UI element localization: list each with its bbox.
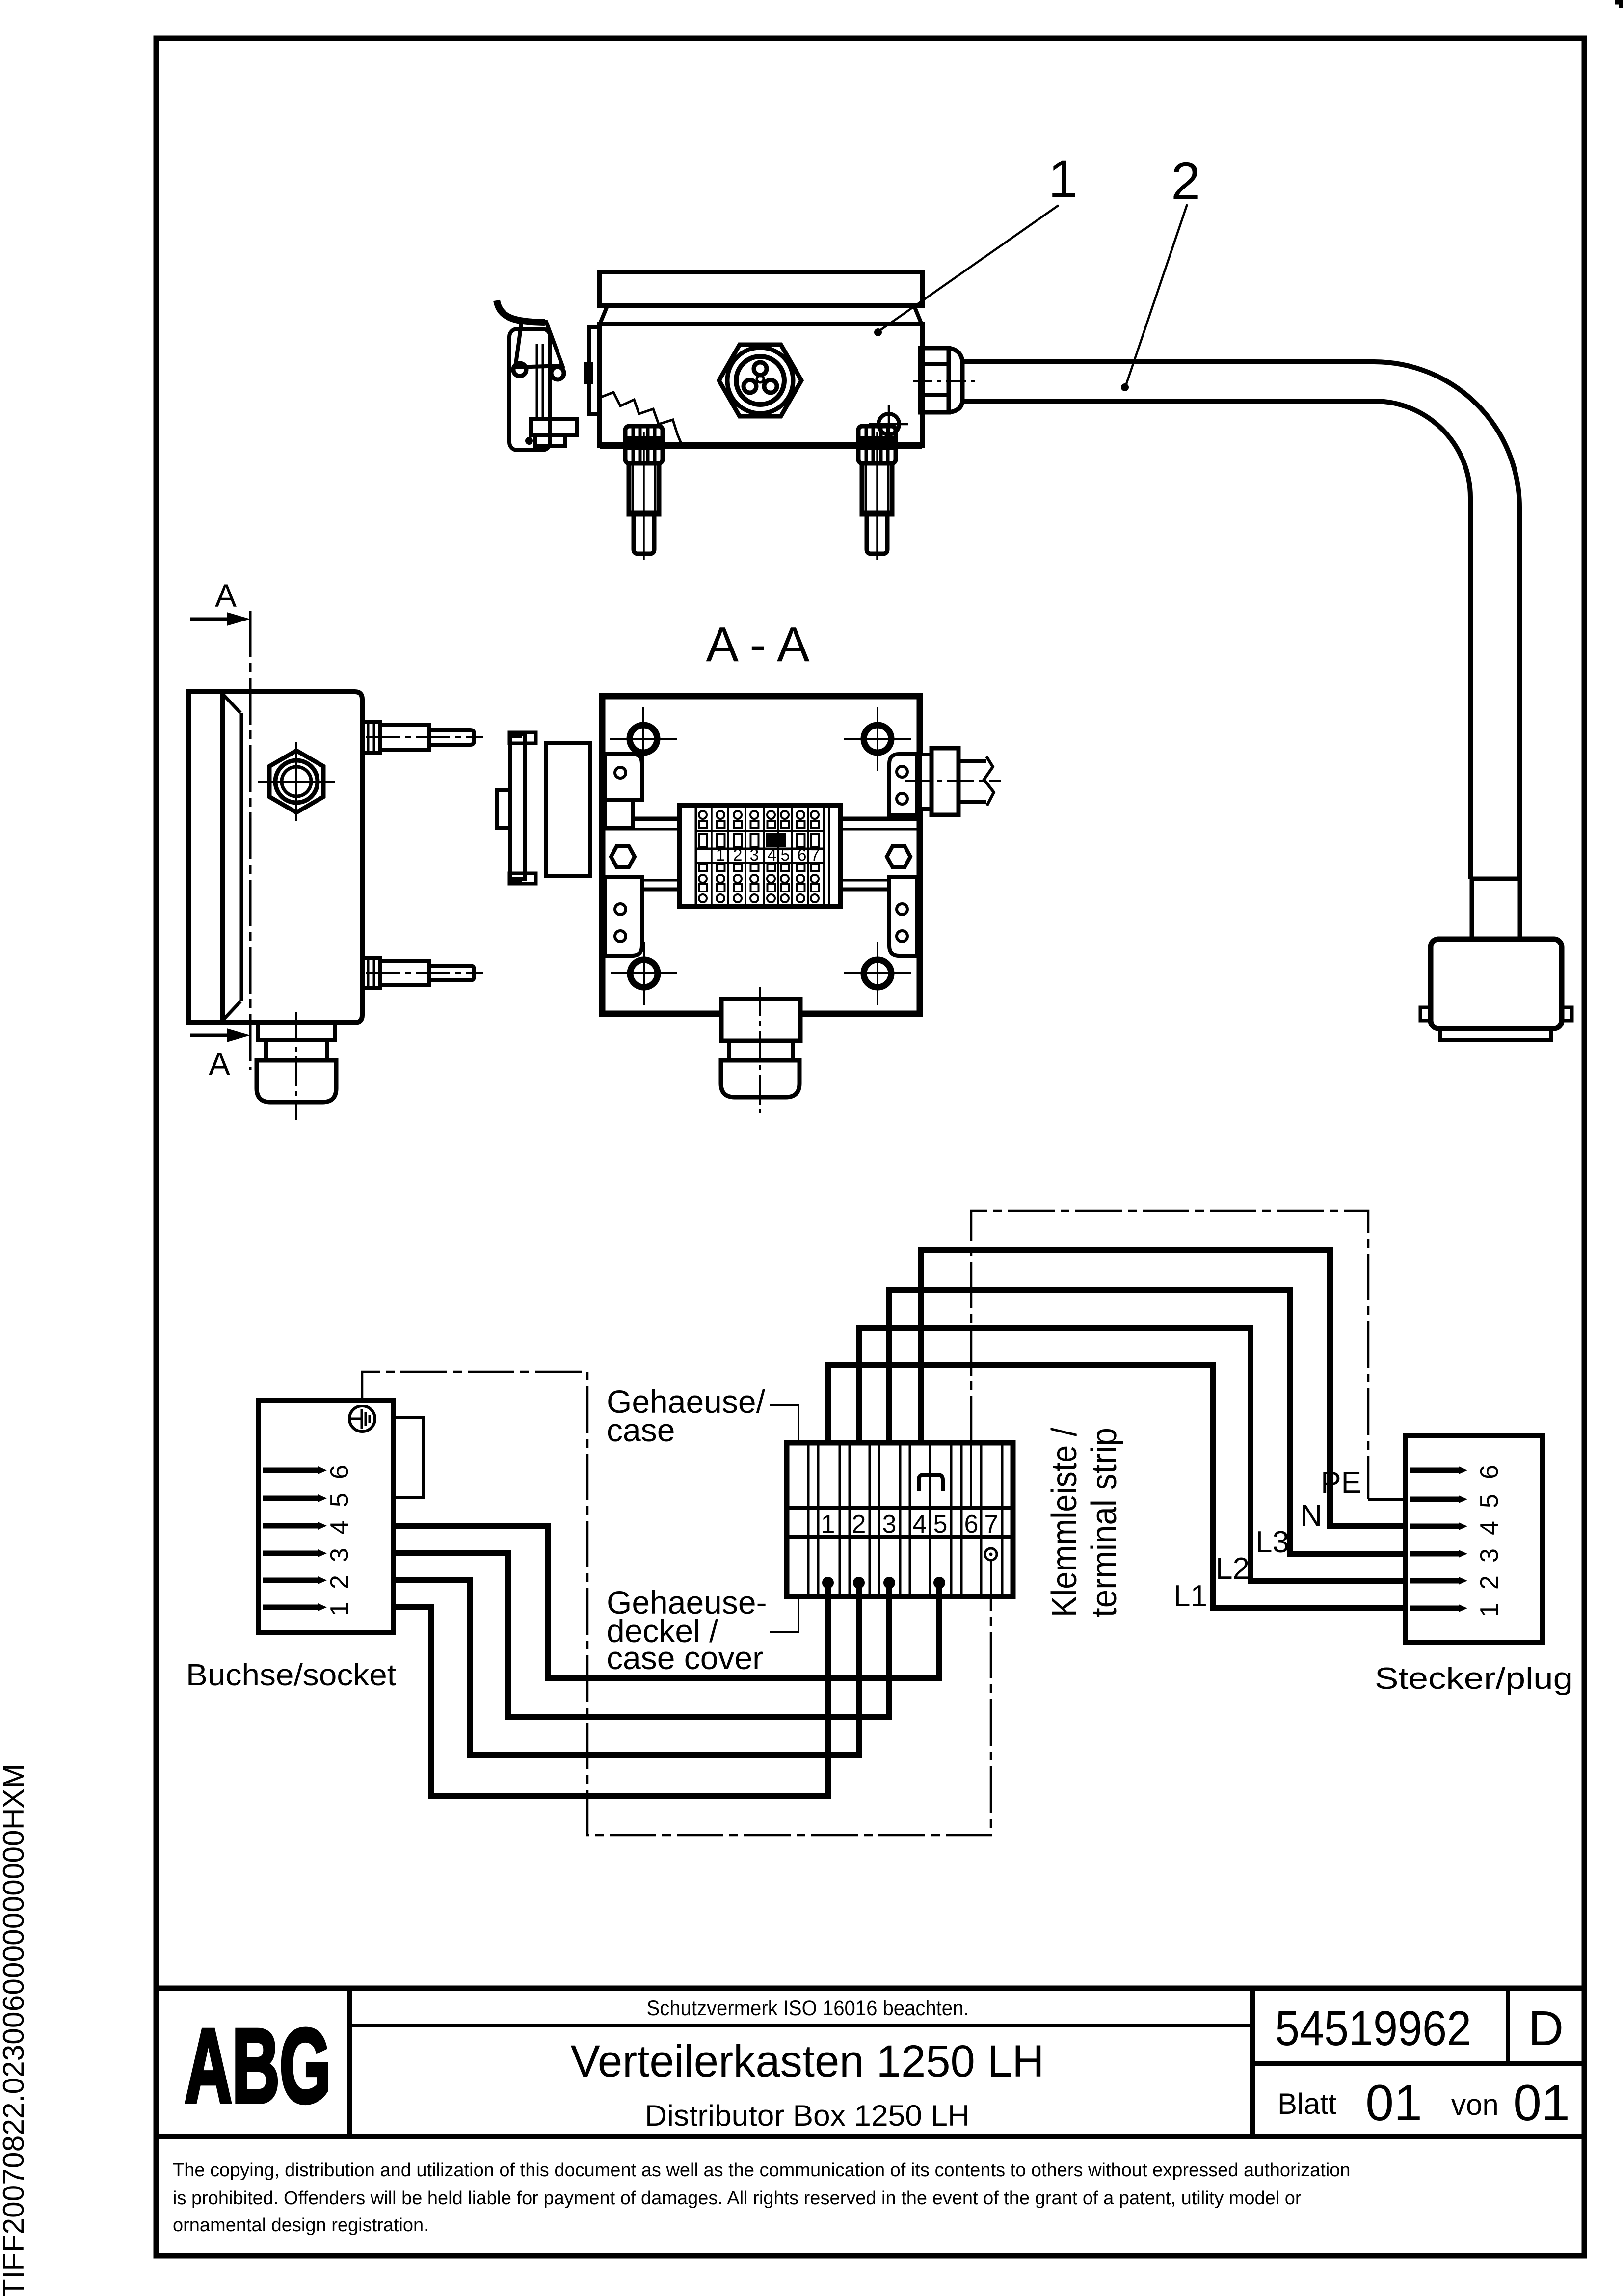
right gland centerline <box>905 780 1001 782</box>
svg-text:1: 1 <box>1048 149 1078 208</box>
strip numbers <box>821 1510 999 1539</box>
terminal strip block <box>679 806 841 906</box>
wire socket pin3 to terminal 3 <box>394 1553 889 1717</box>
svg-text:7: 7 <box>984 1510 999 1539</box>
box body <box>600 324 922 446</box>
wire L2 <box>859 1328 1406 1581</box>
lid chamfer left <box>600 306 607 323</box>
svg-text:6: 6 <box>325 1465 354 1479</box>
bracket top-right <box>889 754 917 815</box>
plug box <box>1406 1436 1543 1643</box>
bridge jumper black <box>766 833 786 847</box>
corner hole bottom-left <box>611 942 677 1005</box>
svg-text:3: 3 <box>325 1548 354 1562</box>
svg-text:5: 5 <box>325 1493 354 1507</box>
gland centerline <box>295 1012 297 1120</box>
svg-text:D: D <box>1528 2001 1564 2056</box>
cable 2 bend <box>1374 362 1519 507</box>
terminal cells columns <box>699 811 819 902</box>
section line <box>249 611 252 1070</box>
svg-text:PE: PE <box>1321 1466 1361 1500</box>
socket key tab <box>394 1418 423 1497</box>
svg-text:5: 5 <box>781 846 790 864</box>
svg-text:4: 4 <box>768 846 777 864</box>
latch rod <box>536 344 538 421</box>
svg-text:2: 2 <box>325 1575 354 1589</box>
bracket top-left <box>605 754 642 800</box>
terminal numbers <box>716 846 820 864</box>
latch horn bottom <box>509 873 536 884</box>
svg-text:Buchse/socket: Buchse/socket <box>186 1658 396 1692</box>
bottom gland flange <box>721 999 800 1041</box>
case cover dash-dot boundary <box>362 1372 991 1835</box>
wire PE stub <box>1368 1498 1406 1501</box>
latch bail wire <box>497 300 545 323</box>
svg-text:1: 1 <box>821 1510 835 1539</box>
title block top line <box>156 1986 1584 1991</box>
latch pivot left <box>513 363 526 376</box>
latch lever <box>515 321 562 367</box>
title block bottom line <box>156 2134 1584 2139</box>
svg-text:L3: L3 <box>1255 1525 1289 1559</box>
stud left <box>623 426 665 560</box>
rail bolt left <box>611 846 635 867</box>
svg-text:ABG: ABG <box>185 2007 331 2125</box>
number cell divider <box>1250 1988 1255 2136</box>
bottom gland cup <box>721 1060 799 1097</box>
latch pin top black <box>510 731 522 738</box>
DIN rail <box>605 819 917 890</box>
plug pin numbers <box>1475 1465 1504 1617</box>
svg-text:3: 3 <box>1475 1548 1504 1563</box>
svg-text:1: 1 <box>716 846 725 864</box>
socket ground symbol <box>349 1406 375 1432</box>
bracket bottom-right <box>889 877 917 956</box>
svg-text:5: 5 <box>933 1510 948 1539</box>
page corner crop mark <box>1615 2 1621 8</box>
bottom gland neck <box>729 1041 793 1060</box>
box body bottom thick edge <box>600 442 922 449</box>
latch pin bottom black <box>510 877 522 884</box>
corner hole top-right <box>844 707 911 771</box>
mounting plate <box>602 696 920 1014</box>
bottom gland side flange <box>258 1023 335 1040</box>
svg-text:Blatt: Blatt <box>1277 2087 1336 2120</box>
socket pin numbers <box>325 1465 354 1616</box>
svg-text:6: 6 <box>1475 1465 1504 1479</box>
upper stud side <box>362 722 483 753</box>
svg-text:01: 01 <box>1513 2075 1570 2132</box>
wedge bottom <box>223 1001 240 1020</box>
svg-text:54519962: 54519962 <box>1275 2001 1471 2056</box>
svg-text:Distributor Box 1250 LH: Distributor Box 1250 LH <box>645 2099 970 2132</box>
svg-text:5: 5 <box>1475 1494 1504 1508</box>
svg-text:6: 6 <box>964 1510 979 1539</box>
bottom gland cup <box>257 1060 336 1102</box>
svg-text:ornamental design registration: ornamental design registration. <box>173 2215 429 2236</box>
cover latch section plate <box>546 743 590 876</box>
body break line <box>600 392 682 446</box>
bracket bottom-left <box>605 877 642 956</box>
left mount plate <box>589 327 600 414</box>
wire N <box>921 1250 1406 1526</box>
svg-text:01: 01 <box>1365 2075 1422 2132</box>
lower stud side <box>362 958 483 988</box>
svg-text:is prohibited. Offenders will: is prohibited. Offenders will be held li… <box>173 2188 1302 2209</box>
ABG cell divider <box>347 1988 352 2136</box>
svg-text:Verteilerkasten 1250 LH: Verteilerkasten 1250 LH <box>571 2036 1044 2086</box>
hinge pin <box>584 362 593 384</box>
svg-text:case cover: case cover <box>607 1640 763 1676</box>
svg-text:A: A <box>209 1046 230 1082</box>
corner hole bottom-right <box>844 942 911 1005</box>
strip number band <box>787 1506 1013 1510</box>
leader 1 <box>880 205 1059 330</box>
svg-text:Klemmleiste /: Klemmleiste / <box>1045 1428 1084 1617</box>
socket pins <box>263 1468 318 1473</box>
svg-text:3: 3 <box>882 1510 897 1539</box>
cable bushing <box>1472 879 1520 939</box>
svg-text:4: 4 <box>325 1520 354 1535</box>
right cable gland nut <box>920 348 949 412</box>
right gland body <box>931 748 958 815</box>
svg-text:3: 3 <box>750 846 759 864</box>
latch foot upper <box>531 419 577 435</box>
bottom gland neck <box>266 1040 327 1060</box>
cable stub bottom <box>958 800 986 804</box>
svg-text:2: 2 <box>1475 1575 1504 1590</box>
col6 stub <box>970 1445 972 1506</box>
latch body <box>509 329 550 450</box>
svg-text:Stecker/plug: Stecker/plug <box>1375 1662 1573 1696</box>
svg-text:2: 2 <box>852 1510 866 1539</box>
wedge top <box>223 695 240 713</box>
svg-text:6: 6 <box>798 846 807 864</box>
plug pins <box>1410 1468 1459 1473</box>
terminal dividers <box>696 808 829 904</box>
cover plate <box>189 692 222 1023</box>
svg-text:Schutzvermerk ISO 16016 beacht: Schutzvermerk ISO 16016 beachten. <box>647 1997 969 2020</box>
wire socket pin4 to terminal 5 <box>394 1526 939 1678</box>
schutzvermerk underline <box>350 2024 1252 2027</box>
socket box <box>259 1401 394 1632</box>
cable 2 horizontal run <box>962 359 1374 364</box>
corner hole top-left <box>610 707 677 771</box>
PE dash-dot path <box>971 1211 1368 1499</box>
latch foot lower <box>535 435 565 446</box>
svg-text:4: 4 <box>913 1510 927 1539</box>
svg-text:case: case <box>607 1412 675 1448</box>
svg-text:The copying, distribution and: The copying, distribution and utilizatio… <box>173 2160 1351 2181</box>
hex cable gland front <box>719 345 801 416</box>
connector housing <box>1431 939 1562 1028</box>
svg-text:N: N <box>1300 1499 1322 1533</box>
svg-text:4: 4 <box>1475 1521 1504 1535</box>
connector tab left <box>1420 1007 1431 1021</box>
svg-text:A: A <box>215 577 237 614</box>
svg-text:1: 1 <box>1475 1603 1504 1617</box>
bridge staple <box>919 1475 943 1491</box>
box lid <box>599 272 922 305</box>
D cell divider <box>1506 1988 1510 2063</box>
contact dots <box>822 1577 834 1589</box>
svg-text:2: 2 <box>1171 151 1200 211</box>
terminal rows <box>696 831 824 863</box>
svg-text:L1: L1 <box>1173 1579 1207 1613</box>
title block <box>156 1988 1584 2236</box>
box body side <box>222 692 362 1023</box>
wire socket pin2 to terminal 2 <box>394 1580 859 1755</box>
svg-text:1: 1 <box>325 1602 354 1616</box>
gland bell <box>949 348 962 412</box>
latch notch <box>497 790 510 828</box>
wire L1 <box>828 1365 1406 1608</box>
svg-text:von: von <box>1451 2088 1499 2121</box>
svg-text:terminal strip: terminal strip <box>1085 1428 1124 1617</box>
rail bolt right <box>887 846 910 867</box>
terminal 7 case contact <box>985 1548 997 1560</box>
latch horn top <box>509 732 536 743</box>
svg-text:L2: L2 <box>1216 1552 1250 1586</box>
connector tab right <box>1562 1007 1572 1021</box>
wire socket pin1 to terminal 1 <box>394 1583 828 1796</box>
wire L3 <box>889 1290 1406 1554</box>
cover latch section left bar <box>510 734 525 879</box>
section arrow top <box>190 618 231 621</box>
latch pivot right <box>551 367 564 379</box>
body inner edge <box>240 713 243 1001</box>
svg-text:2: 2 <box>733 846 743 864</box>
blatt row divider <box>1252 2061 1584 2066</box>
section arrow bottom <box>190 1034 231 1037</box>
target screw <box>878 414 899 434</box>
hex nut side <box>269 751 323 812</box>
bottom gland centerline <box>759 987 761 1113</box>
gland centerline <box>913 380 977 382</box>
cable break zigzag <box>984 756 994 806</box>
svg-text:A - A: A - A <box>706 617 810 672</box>
leader 2 <box>1126 204 1187 385</box>
cable 2 vertical run <box>1468 497 1473 879</box>
right gland flange <box>920 755 932 809</box>
strip verticals <box>808 1445 1002 1594</box>
cable stub top <box>958 759 986 763</box>
stud right <box>856 426 898 560</box>
lid chamfer right <box>914 306 921 323</box>
connector bottom plate <box>1440 1028 1551 1040</box>
svg-text:F TIFF20070822.023006000000000: F TIFF20070822.0230060000000000HXM <box>0 1764 30 2296</box>
svg-text:7: 7 <box>811 846 820 864</box>
schematic terminal strip <box>787 1443 1013 1596</box>
